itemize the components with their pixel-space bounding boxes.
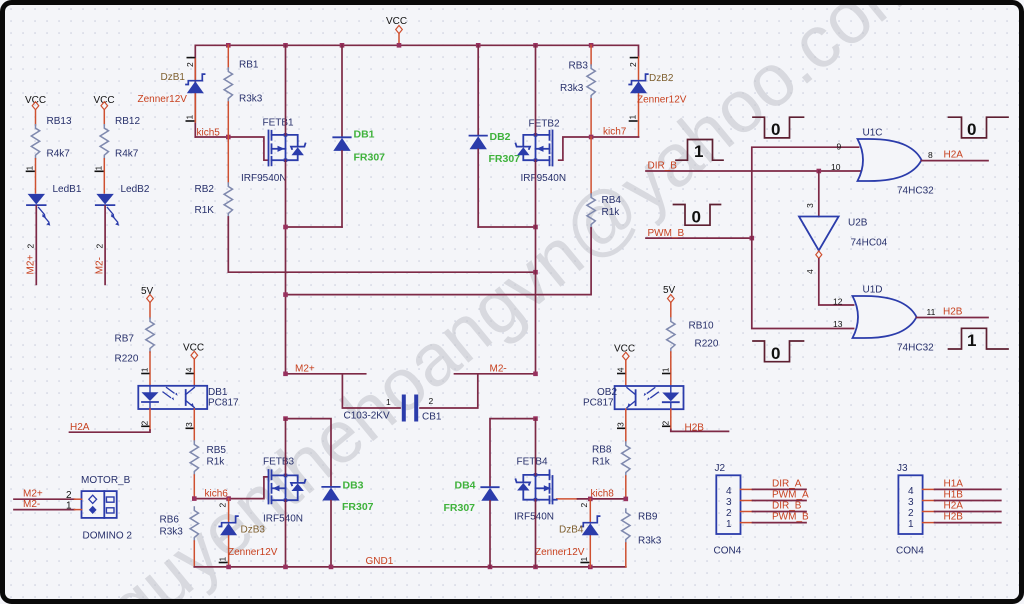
inverter U2B 74HC04 <box>799 217 888 259</box>
resistor RB9 <box>622 509 662 567</box>
svg-text:M2+: M2+ <box>23 489 43 500</box>
svg-text:H2B: H2B <box>685 423 705 434</box>
connector MOTOR_B <box>81 475 132 542</box>
waveform 0 (pin 9) <box>753 117 804 139</box>
svg-text:DB4: DB4 <box>455 480 476 492</box>
svg-text:12: 12 <box>833 297 843 307</box>
resistor RB2 <box>195 137 233 217</box>
zener DzB3 <box>219 499 278 567</box>
svg-text:DIR_B: DIR_B <box>772 501 802 512</box>
wire DIR_B (J2 pin 2) <box>741 501 807 512</box>
svg-text:5V: 5V <box>141 286 154 297</box>
svg-text:R3k3: R3k3 <box>638 536 662 547</box>
svg-text:GND1: GND1 <box>366 556 394 567</box>
svg-text:11: 11 <box>927 307 936 317</box>
svg-text:R1K: R1K <box>195 205 215 216</box>
svg-text:DB1: DB1 <box>354 129 375 141</box>
svg-text:2: 2 <box>579 503 589 508</box>
resistor RB7 <box>115 318 155 386</box>
svg-text:4: 4 <box>184 367 194 372</box>
svg-text:MOTOR_B: MOTOR_B <box>81 475 131 486</box>
pin 4 tick opto DB1 <box>184 367 194 373</box>
svg-text:3: 3 <box>184 422 194 427</box>
svg-text:RB4: RB4 <box>602 195 622 206</box>
wire FETB3 drain column <box>285 419 287 567</box>
svg-text:CON4: CON4 <box>714 546 742 557</box>
pin 1 tick opto DB1 <box>140 367 150 373</box>
optocoupler OB2 PC817 <box>583 386 684 409</box>
wire top VCC bus <box>195 45 638 137</box>
wire RB2 to M2- column <box>228 217 538 275</box>
svg-text:FETB2: FETB2 <box>529 119 561 130</box>
svg-text:Zenner12V: Zenner12V <box>535 547 585 558</box>
svg-text:1: 1 <box>967 331 976 350</box>
svg-text:2: 2 <box>94 244 104 249</box>
svg-text:PWM_B: PWM_B <box>772 512 809 523</box>
svg-text:FETB3: FETB3 <box>263 457 295 468</box>
LED LedB1 <box>27 184 82 226</box>
wire PWM_B bus to pins 9 and 13 <box>752 147 859 328</box>
svg-text:2: 2 <box>726 508 732 519</box>
svg-text:kich6: kich6 <box>205 489 229 500</box>
wire DIR_B <box>646 161 861 174</box>
svg-text:DB3: DB3 <box>343 480 364 492</box>
svg-text:PC817: PC817 <box>583 397 614 408</box>
svg-text:RB10: RB10 <box>689 321 714 332</box>
diode DB4 <box>444 480 499 567</box>
resistor RB4 <box>587 137 621 228</box>
wire kich7 <box>559 127 639 161</box>
svg-text:Zenner12V: Zenner12V <box>138 94 188 105</box>
svg-text:U2B: U2B <box>848 218 868 229</box>
svg-text:4: 4 <box>805 269 815 274</box>
svg-text:VCC: VCC <box>25 95 46 106</box>
svg-text:IRF9540N: IRF9540N <box>241 173 287 184</box>
svg-text:3: 3 <box>616 422 626 427</box>
wire M2- rail <box>455 364 538 377</box>
power VCC (LedB2 column) <box>94 95 115 125</box>
svg-text:R1k: R1k <box>592 457 611 468</box>
svg-text:DIR_A: DIR_A <box>772 479 802 490</box>
wire kich6 <box>192 477 268 501</box>
zener DzB1 <box>138 59 205 122</box>
svg-text:RB9: RB9 <box>638 512 658 523</box>
svg-text:LedB2: LedB2 <box>121 184 150 195</box>
svg-text:M2+: M2+ <box>295 364 315 375</box>
resistor RB1 <box>224 45 263 137</box>
svg-text:kich8: kich8 <box>591 489 615 500</box>
wire H1B (J3 pin 3) <box>923 490 1001 501</box>
svg-text:H2B: H2B <box>943 307 963 318</box>
wire U2B output to pin 12 <box>805 259 854 305</box>
svg-text:4: 4 <box>726 486 732 497</box>
pin 1 tick opto OB2 <box>661 367 671 373</box>
svg-text:RB5: RB5 <box>207 445 227 456</box>
pin 1 tick DzB3 <box>218 557 228 563</box>
wire FETB2 drain column <box>535 45 537 374</box>
svg-text:IRF540N: IRF540N <box>263 514 303 525</box>
svg-text:U1D: U1D <box>863 285 883 296</box>
wire PWM_B (J2 pin 1) <box>741 512 810 523</box>
svg-text:1: 1 <box>661 367 671 372</box>
wire kich8 <box>557 489 628 502</box>
diode DB1 <box>333 45 385 227</box>
svg-text:M2-: M2- <box>23 499 40 510</box>
pin 2 tick DzB4 <box>579 503 589 508</box>
wire U2B input <box>805 171 819 217</box>
pin 2 tick opto DB1 <box>140 421 150 427</box>
svg-text:H2B: H2B <box>944 512 964 523</box>
wire H2A (J3 pin 2) <box>923 501 1001 512</box>
svg-text:1: 1 <box>185 115 195 120</box>
resistor RB10 <box>667 318 719 386</box>
power VCC (LedB1 column) <box>25 95 46 125</box>
wire H2B <box>671 409 729 433</box>
svg-text:R3k3: R3k3 <box>560 83 584 94</box>
svg-text:R1k: R1k <box>602 207 621 218</box>
or-gate U1D 74HC32 <box>833 285 936 354</box>
svg-text:R3k3: R3k3 <box>239 94 263 105</box>
svg-text:DzB2: DzB2 <box>649 73 674 84</box>
zener DzB2 <box>629 57 687 137</box>
svg-text:RB7: RB7 <box>115 334 135 345</box>
svg-text:2: 2 <box>26 244 36 249</box>
svg-text:IRF9540N: IRF9540N <box>521 173 567 184</box>
wire DB2 anode row <box>478 225 538 230</box>
svg-text:IRF540N: IRF540N <box>514 512 554 523</box>
svg-text:1: 1 <box>908 519 914 530</box>
svg-text:M2-: M2- <box>490 364 507 375</box>
svg-text:C103-2KV: C103-2KV <box>344 411 390 422</box>
svg-text:1: 1 <box>25 166 35 171</box>
svg-text:FETB1: FETB1 <box>263 118 295 129</box>
wire H2B (J3 pin 1) <box>923 512 1001 523</box>
svg-text:H2A: H2A <box>944 150 964 161</box>
pin 3 tick opto OB2 <box>616 422 626 428</box>
optocoupler DB1 PC817 <box>138 386 239 409</box>
svg-text:2: 2 <box>661 421 671 426</box>
svg-text:0: 0 <box>771 120 780 139</box>
svg-text:CB1: CB1 <box>422 412 442 423</box>
power VCC (top bus) <box>386 16 407 45</box>
wire H2B output <box>917 307 989 318</box>
wire LedB2 to M2- <box>94 206 105 285</box>
waveform 1 (H2B) <box>949 328 1009 350</box>
diode DB2 <box>470 45 521 227</box>
svg-text:1: 1 <box>726 519 732 530</box>
svg-text:RB8: RB8 <box>592 445 612 456</box>
wire PWM_B <box>646 228 754 241</box>
svg-text:R4k7: R4k7 <box>47 149 71 160</box>
svg-text:1: 1 <box>140 367 150 372</box>
svg-text:VCC: VCC <box>94 95 115 106</box>
svg-text:H2A: H2A <box>944 501 964 512</box>
svg-text:2: 2 <box>185 62 195 67</box>
svg-text:M2+: M2+ <box>26 255 37 275</box>
svg-text:2: 2 <box>628 62 638 67</box>
svg-text:kich7: kich7 <box>603 127 627 138</box>
svg-text:kich5: kich5 <box>197 128 221 139</box>
svg-text:1: 1 <box>579 557 589 562</box>
svg-text:R1k: R1k <box>207 457 226 468</box>
waveform 0 (PWM_B) <box>674 205 721 227</box>
svg-text:J3: J3 <box>897 463 908 474</box>
wire LedB1 to M2+ <box>26 206 37 285</box>
svg-text:2: 2 <box>140 421 150 426</box>
svg-text:DOMINO 2: DOMINO 2 <box>83 531 133 542</box>
wire M2+ to DB3 <box>283 416 331 487</box>
diode DB3 <box>322 480 373 567</box>
svg-text:RB12: RB12 <box>115 116 140 127</box>
svg-text:CON4: CON4 <box>896 546 924 557</box>
resistor RB8 <box>592 409 630 499</box>
wire FETB1 drain column <box>285 45 287 374</box>
svg-text:1: 1 <box>66 501 72 512</box>
wire M2+ to motor pin 2 <box>14 489 82 502</box>
svg-text:DzB3: DzB3 <box>241 525 266 536</box>
svg-text:9: 9 <box>837 142 842 152</box>
svg-text:FETB4: FETB4 <box>517 457 549 468</box>
wire H2A <box>70 409 151 433</box>
pin 2 tick opto OB2 <box>661 421 671 427</box>
svg-text:R220: R220 <box>695 339 719 350</box>
svg-text:2: 2 <box>66 490 72 501</box>
pin 3 tick opto DB1 <box>184 422 194 428</box>
pin 4 tick opto OB2 <box>616 367 626 373</box>
svg-text:R220: R220 <box>115 354 139 365</box>
svg-text:PWM_A: PWM_A <box>772 490 809 501</box>
transistor FETB3 <box>263 457 305 525</box>
waveform 1 (DIR_B) <box>676 140 723 162</box>
svg-text:1: 1 <box>628 115 638 120</box>
transistor FETB4 <box>514 457 557 523</box>
wire H1A (J3 pin 4) <box>923 479 1001 490</box>
power 5V (RB10) <box>663 285 676 318</box>
or-gate U1C 74HC32 <box>831 128 934 197</box>
svg-text:4: 4 <box>908 486 914 497</box>
power 5V (RB7) <box>141 286 154 318</box>
svg-text:2: 2 <box>429 396 434 406</box>
wire kich5 <box>195 128 268 161</box>
svg-text:FR307: FR307 <box>354 152 386 164</box>
svg-text:DIR_B: DIR_B <box>648 161 678 172</box>
svg-text:74HC32: 74HC32 <box>897 186 934 197</box>
svg-text:LedB1: LedB1 <box>53 184 82 195</box>
svg-text:0: 0 <box>771 344 780 363</box>
resistor RB5 <box>190 409 226 499</box>
svg-text:H1A: H1A <box>944 479 964 490</box>
svg-text:FR307: FR307 <box>444 502 476 514</box>
svg-text:0: 0 <box>967 120 976 139</box>
wire RB4 to M2+ column <box>283 228 591 297</box>
svg-text:10: 10 <box>831 162 841 172</box>
waveform 0 (pin 13) <box>753 341 804 363</box>
svg-text:PC817: PC817 <box>208 397 239 408</box>
svg-text:8: 8 <box>928 150 933 160</box>
svg-text:2: 2 <box>218 503 228 508</box>
wire M2+ rail <box>283 364 366 377</box>
svg-text:4: 4 <box>616 367 626 372</box>
svg-text:DzB4: DzB4 <box>559 525 584 536</box>
pin 1 tick DzB2 <box>628 115 638 122</box>
wire DIR_A (J2 pin 4) <box>741 479 807 490</box>
wire FETB4 drain column <box>535 419 537 567</box>
svg-text:VCC: VCC <box>386 16 407 27</box>
svg-text:1: 1 <box>386 397 391 407</box>
power VCC (opto DB1) <box>183 343 204 386</box>
resistor RB13 <box>31 116 72 193</box>
svg-text:3: 3 <box>726 497 732 508</box>
connector J2 CON4 <box>714 463 742 557</box>
svg-text:1: 1 <box>218 557 228 562</box>
svg-text:R3k3: R3k3 <box>160 527 184 538</box>
svg-text:RB2: RB2 <box>195 184 215 195</box>
svg-text:13: 13 <box>833 319 843 329</box>
svg-text:74HC04: 74HC04 <box>851 238 888 249</box>
pin 1 tick DzB1 <box>185 115 195 122</box>
wire M2- to motor pin 1 <box>14 499 82 512</box>
svg-text:1: 1 <box>694 142 703 161</box>
svg-text:5V: 5V <box>663 285 676 296</box>
svg-text:3: 3 <box>908 497 914 508</box>
pin 2 tick DzB1 <box>185 58 195 67</box>
svg-text:VCC: VCC <box>614 344 635 355</box>
zener DzB4 <box>535 499 600 567</box>
svg-text:3: 3 <box>805 203 815 208</box>
svg-text:PWM_B: PWM_B <box>648 228 685 239</box>
wire M2- to DB4 <box>490 416 538 487</box>
svg-text:RB6: RB6 <box>160 515 180 526</box>
node bus junctions <box>226 43 593 48</box>
svg-text:DzB1: DzB1 <box>161 72 186 83</box>
svg-text:DB2: DB2 <box>490 131 511 143</box>
pin 1 tick LedB1 <box>25 166 35 172</box>
svg-text:RB3: RB3 <box>569 61 589 72</box>
svg-text:Zenner12V: Zenner12V <box>637 95 687 106</box>
pin 1 tick DzB4 <box>579 557 589 563</box>
connector J3 CON4 <box>896 463 924 557</box>
wire GND1 rail <box>194 556 626 569</box>
pin 2 tick DzB2 <box>628 58 638 67</box>
transistor FETB2 <box>516 119 566 185</box>
capacitor CB1 <box>342 374 477 423</box>
svg-text:M2-: M2- <box>94 257 105 274</box>
svg-text:FR307: FR307 <box>342 501 374 513</box>
svg-text:2: 2 <box>908 508 914 519</box>
resistor RB3 <box>560 45 595 137</box>
svg-text:74HC32: 74HC32 <box>897 343 934 354</box>
power VCC (opto OB2) <box>614 344 635 387</box>
svg-text:H2A: H2A <box>70 422 90 433</box>
svg-text:1: 1 <box>93 166 103 171</box>
wire PWM_A (J2 pin 3) <box>741 490 810 501</box>
svg-text:Zenner12V: Zenner12V <box>228 547 278 558</box>
waveform 0 (H2A) <box>949 117 1009 139</box>
LED LedB2 <box>96 184 150 226</box>
svg-text:0: 0 <box>692 208 701 227</box>
svg-text:RB13: RB13 <box>47 116 72 127</box>
svg-text:FR307: FR307 <box>489 153 521 165</box>
svg-text:H1B: H1B <box>944 490 964 501</box>
wire H2A output <box>922 150 989 161</box>
pin 2 tick DzB3 <box>218 503 228 508</box>
wire DB1 anode row <box>283 225 342 230</box>
svg-text:R4k7: R4k7 <box>115 149 139 160</box>
svg-text:J2: J2 <box>715 463 726 474</box>
resistor RB12 <box>100 116 140 193</box>
resistor RB6 <box>160 507 199 567</box>
pin 1 tick LedB2 <box>93 166 103 172</box>
svg-text:U1C: U1C <box>863 128 883 139</box>
transistor FETB1 <box>241 118 305 185</box>
svg-text:RB1: RB1 <box>239 60 259 71</box>
